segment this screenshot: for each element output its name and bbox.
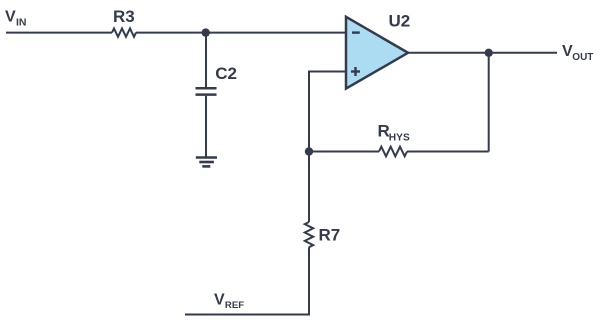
ground: [196, 158, 217, 167]
svg-text:U2: U2: [389, 11, 411, 30]
wire C2 to ground: [205, 96, 207, 158]
wire feedback vertical: [488, 53, 490, 152]
svg-text:V: V: [214, 292, 225, 309]
node B (output junction): [485, 49, 493, 57]
wire op-amp output to VOUT: [408, 52, 557, 54]
svg-text:IN: IN: [16, 17, 27, 29]
pin - (inverting input): [352, 31, 360, 33]
node A (junction of R3, C2): [202, 28, 210, 36]
wire VREF horizontal: [185, 314, 310, 316]
node C (junction of feedback, + input, R7): [305, 147, 313, 155]
wire feedback horizontal left of RHYS: [309, 151, 379, 153]
svg-text:V: V: [5, 9, 16, 26]
node VREF label: [214, 292, 244, 312]
svg-text:C2: C2: [215, 64, 237, 83]
wire R3 to op-amp: [136, 32, 346, 34]
resistor R3: [112, 7, 136, 37]
node VOUT label: [562, 43, 593, 63]
resistor RHYS: [378, 122, 410, 157]
wire + input: [309, 72, 346, 152]
svg-text:R3: R3: [113, 7, 135, 26]
resistor R7: [305, 222, 340, 247]
capacitor C2: [196, 64, 237, 95]
wire feedback horizontal right of RHYS: [407, 151, 489, 153]
wire R7 to VREF wire: [308, 247, 310, 314]
op-amp U2: [346, 11, 410, 88]
node VIN: [5, 9, 27, 29]
svg-text:HYS: HYS: [389, 132, 410, 143]
wire VIN to R3: [6, 32, 112, 34]
svg-text:REF: REF: [225, 300, 244, 311]
wire node C to R7: [308, 152, 310, 223]
pin + (non-inverting input): [351, 67, 360, 76]
wire node A to C2: [205, 33, 207, 88]
svg-text:R7: R7: [319, 225, 341, 244]
svg-text:OUT: OUT: [572, 52, 593, 63]
